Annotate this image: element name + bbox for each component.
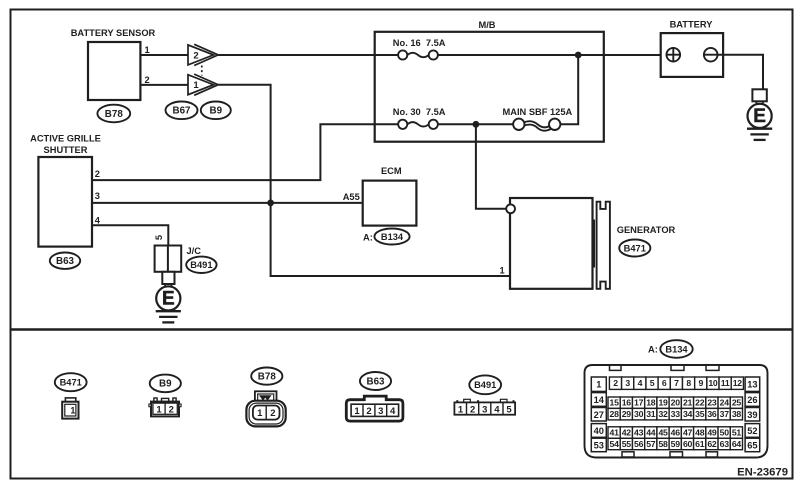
- pin A55 label: [343, 192, 360, 202]
- svg-text:40: 40: [594, 426, 604, 436]
- svg-text:4: 4: [95, 215, 101, 225]
- svg-text:3: 3: [625, 378, 630, 388]
- ground E (battery): [747, 89, 772, 140]
- svg-text:5: 5: [650, 378, 655, 388]
- svg-text:18: 18: [646, 398, 656, 408]
- svg-text:M/B: M/B: [478, 20, 495, 30]
- svg-text:65: 65: [747, 440, 757, 450]
- svg-text:46: 46: [671, 428, 681, 438]
- wire: shutter pin 3 to ECM A55: [92, 202, 363, 204]
- svg-text:56: 56: [634, 439, 644, 449]
- pin 2 (active grille shutter): [95, 169, 100, 179]
- battery: [661, 19, 723, 76]
- svg-text:41: 41: [610, 428, 620, 438]
- generator L terminal (open circle): [506, 204, 515, 213]
- svg-text:7: 7: [674, 378, 679, 388]
- svg-text:24: 24: [720, 398, 730, 408]
- wire: battery negative to ground E: [718, 55, 764, 90]
- svg-text:30: 30: [634, 409, 644, 419]
- svg-text:57: 57: [646, 439, 656, 449]
- pin 1 (generator): [500, 265, 505, 275]
- connector label B78: [97, 105, 130, 123]
- figure number EN-23679: [737, 467, 788, 479]
- svg-text:50: 50: [720, 428, 730, 438]
- svg-text:ACTIVE GRILLE: ACTIVE GRILLE: [30, 134, 101, 144]
- svg-text:34: 34: [683, 409, 693, 419]
- svg-text:51: 51: [732, 428, 742, 438]
- svg-text:28: 28: [610, 409, 620, 419]
- connector label B471 (bottom): [55, 373, 87, 391]
- wire: shutter pin 4 down to J/C: [92, 225, 168, 245]
- connector label B63 (schematic): [50, 253, 80, 269]
- svg-text:B63: B63: [367, 376, 386, 387]
- svg-text:B471: B471: [624, 243, 646, 253]
- svg-text:64: 64: [732, 439, 742, 449]
- svg-text:3: 3: [378, 406, 383, 417]
- pin 5 label (J/C, rotated): [154, 235, 164, 240]
- junction connector J/C B491: [155, 246, 202, 272]
- svg-text:SHUTTER: SHUTTER: [44, 145, 88, 155]
- svg-text:9: 9: [699, 378, 704, 388]
- svg-text:1: 1: [257, 408, 263, 419]
- connector label B9 (bottom): [150, 375, 181, 393]
- svg-text:60: 60: [683, 439, 693, 449]
- svg-text:B9: B9: [210, 106, 223, 117]
- svg-text:16: 16: [622, 398, 632, 408]
- connector label B67: [166, 102, 198, 120]
- battery positive terminal: [666, 47, 681, 62]
- svg-text:5: 5: [154, 235, 164, 240]
- svg-text:53: 53: [594, 440, 604, 450]
- svg-text:2: 2: [613, 378, 618, 388]
- junction: SBF branch on No.16 wire: [575, 52, 582, 59]
- svg-text:38: 38: [732, 409, 742, 419]
- svg-text:12: 12: [733, 378, 743, 388]
- junction: pin3 wire with arrow-1 branch: [267, 200, 274, 207]
- svg-text:GENERATOR: GENERATOR: [617, 225, 676, 235]
- svg-text:29: 29: [622, 409, 632, 419]
- svg-text:32: 32: [658, 409, 668, 419]
- svg-text:B134: B134: [381, 232, 404, 242]
- svg-text:47: 47: [683, 428, 693, 438]
- svg-text:2: 2: [470, 405, 475, 416]
- svg-text:44: 44: [646, 428, 656, 438]
- svg-text:2: 2: [270, 408, 275, 419]
- svg-text:1: 1: [596, 380, 601, 390]
- connector B491 pin view: [454, 399, 515, 415]
- connector B78 pin view: [246, 391, 285, 426]
- svg-text:2: 2: [366, 406, 371, 417]
- svg-text:B67: B67: [173, 106, 192, 117]
- generator B471: [510, 198, 676, 289]
- svg-text:15: 15: [610, 398, 620, 408]
- svg-text:1: 1: [70, 405, 75, 415]
- svg-text:59: 59: [671, 439, 681, 449]
- svg-text:37: 37: [720, 409, 730, 419]
- svg-text:21: 21: [683, 398, 693, 408]
- svg-text:63: 63: [720, 439, 730, 449]
- pin 4 (active grille shutter): [95, 215, 101, 225]
- svg-text:61: 61: [695, 439, 705, 449]
- connector label A: B134 (schematic): [363, 229, 410, 245]
- svg-text:31: 31: [646, 409, 656, 419]
- svg-text:58: 58: [658, 439, 668, 449]
- connector label B63 (bottom): [360, 372, 391, 390]
- svg-text:36: 36: [707, 409, 717, 419]
- svg-text:BATTERY: BATTERY: [670, 19, 714, 29]
- svg-text:2: 2: [193, 50, 198, 61]
- connector label B491 (schematic): [186, 257, 216, 273]
- svg-text:1: 1: [458, 405, 464, 416]
- svg-text:11: 11: [721, 378, 730, 388]
- svg-text:B134: B134: [665, 344, 688, 354]
- svg-text:A:: A:: [648, 344, 658, 354]
- svg-text:17: 17: [634, 398, 644, 408]
- svg-text:22: 22: [695, 398, 705, 408]
- ECM A55: [363, 166, 417, 226]
- in-line connector arrow 2 (B67-B9): [188, 44, 218, 65]
- svg-text:B78: B78: [258, 371, 277, 382]
- svg-text:6: 6: [662, 378, 667, 388]
- svg-text:1: 1: [354, 406, 360, 417]
- ground E (J/C branch): [156, 272, 181, 323]
- svg-text:B63: B63: [56, 256, 75, 267]
- svg-text:35: 35: [695, 409, 705, 419]
- wire: battery sensor pin 1 to connector arrow 2: [140, 54, 188, 56]
- connector label B78 (bottom): [251, 368, 282, 385]
- svg-text:A55: A55: [343, 192, 360, 202]
- svg-text:EN-23679: EN-23679: [737, 467, 788, 479]
- svg-text:3: 3: [95, 191, 100, 201]
- wire: battery sensor pin 2 to connector arrow 1: [140, 84, 188, 86]
- connector label B471 (schematic): [619, 240, 650, 257]
- svg-text:No. 16 7.5A: No. 16 7.5A: [393, 38, 446, 48]
- svg-text:39: 39: [747, 410, 757, 420]
- svg-text:62: 62: [707, 439, 717, 449]
- svg-text:2: 2: [95, 169, 100, 179]
- svg-text:B78: B78: [105, 109, 124, 120]
- svg-text:1: 1: [193, 80, 199, 91]
- dotted pairing line between arrows: [201, 66, 203, 76]
- wire: arrow 2 to M/B No.16 fuse: [218, 54, 398, 56]
- svg-text:23: 23: [707, 398, 717, 408]
- svg-text:45: 45: [658, 428, 668, 438]
- wire: No.30 junction down to generator terminal: [476, 124, 507, 209]
- svg-text:ECM: ECM: [381, 166, 402, 176]
- connector label B9: [201, 102, 231, 120]
- svg-text:1: 1: [500, 265, 505, 275]
- pin 1 (battery sensor): [145, 45, 150, 55]
- svg-text:42: 42: [622, 428, 632, 438]
- connector label B491 (bottom): [469, 375, 501, 394]
- svg-text:B491: B491: [190, 260, 212, 270]
- fuse No. 16 7.5A: [393, 38, 446, 60]
- svg-text:5: 5: [506, 405, 512, 416]
- pin 3 (active grille shutter): [95, 191, 100, 201]
- connector B471 pin view: [62, 398, 78, 419]
- svg-text:B471: B471: [60, 378, 82, 388]
- svg-text:54: 54: [610, 439, 620, 449]
- svg-text:52: 52: [747, 426, 757, 436]
- svg-text:14: 14: [594, 395, 605, 405]
- svg-text:19: 19: [658, 398, 668, 408]
- svg-text:48: 48: [695, 428, 705, 438]
- active grille shutter B63: [30, 134, 101, 247]
- svg-text:B9: B9: [159, 379, 172, 390]
- svg-text:13: 13: [747, 380, 757, 390]
- svg-text:33: 33: [671, 409, 681, 419]
- svg-text:4: 4: [638, 378, 643, 388]
- battery sensor B78: [71, 28, 156, 100]
- svg-text:2: 2: [145, 75, 150, 85]
- svg-text:MAIN SBF 125A: MAIN SBF 125A: [503, 107, 573, 117]
- svg-text:25: 25: [732, 398, 742, 408]
- fuse No. 30 7.5A: [393, 107, 446, 129]
- wire: MAIN SBF up to No.16 wire: [560, 55, 578, 124]
- svg-text:B491: B491: [474, 380, 496, 390]
- svg-text:3: 3: [482, 405, 487, 416]
- wire: No.30 fuse to MAIN SBF: [438, 123, 513, 125]
- fusible link MAIN SBF 125A: [503, 107, 573, 130]
- svg-text:2: 2: [169, 405, 174, 416]
- svg-text:55: 55: [622, 439, 632, 449]
- svg-text:43: 43: [634, 428, 644, 438]
- wire: shutter pin 2 to M/B No.30 fuse: [92, 124, 398, 180]
- svg-text:1: 1: [145, 45, 150, 55]
- svg-text:4: 4: [494, 405, 500, 416]
- svg-text:BATTERY SENSOR: BATTERY SENSOR: [71, 28, 156, 38]
- battery negative terminal: [703, 48, 718, 62]
- pin 2 (battery sensor): [145, 75, 150, 85]
- wire: arrow 1 down to generator pin 1: [218, 85, 510, 276]
- svg-text:26: 26: [747, 395, 757, 405]
- svg-text:E: E: [162, 289, 175, 310]
- connector B63 pin view: [346, 396, 403, 421]
- svg-text:27: 27: [594, 410, 604, 420]
- svg-text:4: 4: [390, 406, 396, 417]
- svg-text:1: 1: [156, 405, 162, 416]
- junction: generator branch on No.30 wire: [473, 121, 480, 128]
- svg-text:20: 20: [671, 398, 681, 408]
- svg-text:No. 30 7.5A: No. 30 7.5A: [393, 107, 446, 117]
- ECM connector B134 pin grid: [585, 365, 768, 458]
- svg-text:E: E: [753, 106, 766, 127]
- svg-text:10: 10: [708, 378, 718, 388]
- connector label A: B134 (bottom): [648, 340, 693, 358]
- svg-text:A:: A:: [363, 233, 373, 243]
- svg-text:J/C: J/C: [187, 246, 202, 256]
- svg-text:49: 49: [707, 428, 717, 438]
- in-line connector arrow 1 (B67-B9): [188, 74, 218, 95]
- wire: No.16 fuse to battery positive: [438, 54, 667, 56]
- svg-text:8: 8: [686, 378, 691, 388]
- connector B9 pin view: [149, 398, 181, 416]
- main fuse box M/B: [375, 20, 604, 142]
